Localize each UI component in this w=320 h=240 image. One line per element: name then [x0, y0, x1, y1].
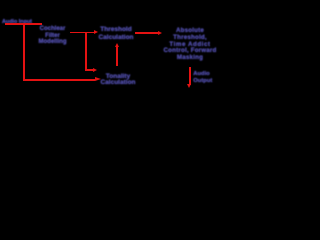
- arrowhead: into Tonality Calculation (right-pointing): [95, 77, 101, 81]
- wire: elbow horizontal into Tonality (upper): [85, 69, 94, 71]
- wire: vertical between Threshold Calculation and Tonality Calculation: [116, 47, 118, 66]
- node: Threshold Calculation block: [98, 26, 133, 40]
- arrowhead: Tonality to Threshold (up-pointing): [115, 43, 119, 47]
- arrowhead: elbow into Tonality (right-pointing): [93, 68, 97, 72]
- node: Absolute Threshold / Time Addict Control / Forward Masking block: [163, 28, 216, 62]
- node: Audio Output label: [193, 71, 212, 84]
- arrowhead: into Absolute block (right-pointing): [158, 31, 162, 35]
- wire: bottom horizontal to Tonality Calculation: [23, 79, 95, 81]
- wire: T-junction vertical down from Cochlear-Threshold wire: [85, 32, 87, 71]
- arrowhead: Audio Output (down-pointing): [187, 84, 191, 88]
- wire: vertical down to Audio Output: [189, 67, 191, 85]
- node: Audio Input label: [2, 20, 32, 25]
- wire: Audio Input underline: [5, 23, 42, 25]
- node: Tonality Calculation block: [100, 74, 135, 87]
- node: Cochlear Filter Modelling block: [39, 26, 67, 45]
- wire: Threshold Calculation to Absolute block: [135, 32, 158, 34]
- wire: left vertical from Audio Input down: [23, 23, 25, 80]
- arrowhead: into Threshold Calculation (right-pointing): [94, 30, 98, 34]
- wire: Cochlear Filter Modelling to Threshold Calculation: [70, 32, 95, 34]
